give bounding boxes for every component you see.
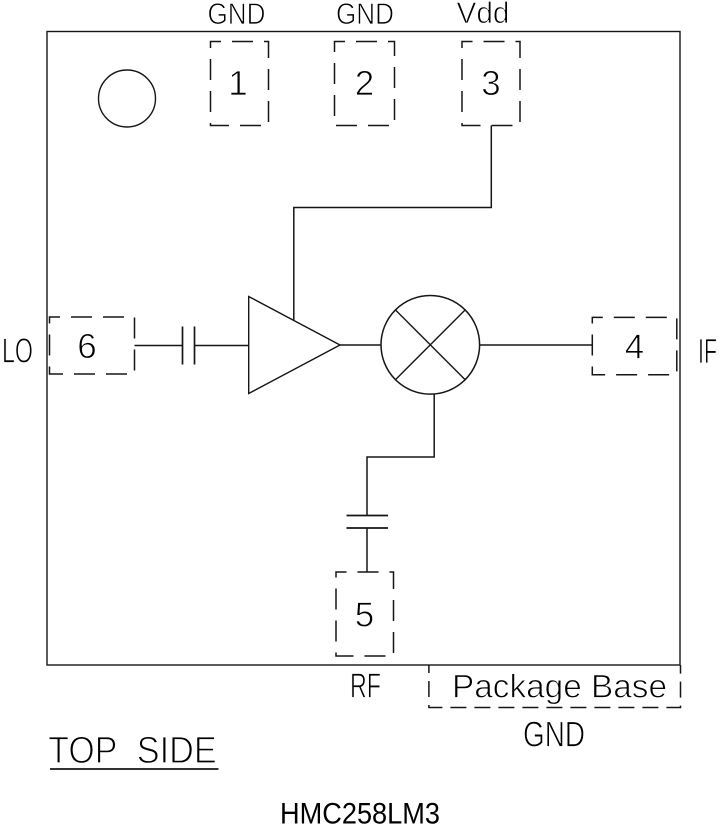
pin 1 pad <box>211 42 269 126</box>
svg-text:HMC258LM3: HMC258LM3 <box>280 798 440 827</box>
svg-text:LO: LO <box>2 332 33 371</box>
wire mixer to capacitor C2 <box>367 394 434 515</box>
svg-text:TOP: TOP <box>48 730 117 772</box>
capacitor C1 (LO coupling) <box>183 327 195 365</box>
svg-text:6: 6 <box>77 327 96 366</box>
svg-text:GND: GND <box>208 0 266 31</box>
mixer U1 <box>381 296 480 395</box>
svg-text:IF: IF <box>698 332 717 371</box>
wire amplifier to mixer <box>340 344 381 346</box>
label TOP SIDE <box>48 730 218 772</box>
svg-text:RF: RF <box>350 667 381 706</box>
wire mixer to pin 4 <box>480 344 593 346</box>
svg-text:3: 3 <box>481 64 500 103</box>
pin 6 pad <box>50 317 135 374</box>
wire pin 6 to capacitor C1 <box>135 345 183 347</box>
pin 2 pad <box>335 42 395 126</box>
pin 5 pad <box>336 572 394 656</box>
amplifier A1 <box>249 297 340 394</box>
svg-text:5: 5 <box>355 596 374 635</box>
wire Vdd pin 3 to amplifier <box>294 126 492 321</box>
svg-text:GND: GND <box>523 714 585 755</box>
capacitor C2 (RF coupling) <box>347 516 389 529</box>
wire capacitor C2 to pin 5 <box>366 528 368 572</box>
wire capacitor C1 to amplifier <box>195 345 250 347</box>
pin 1 indicator circle <box>99 70 156 127</box>
svg-text:2: 2 <box>355 64 374 103</box>
package base pad <box>429 665 681 708</box>
pin 3 pad <box>462 42 520 126</box>
svg-text:Package Base: Package Base <box>452 668 667 705</box>
svg-text:Vdd: Vdd <box>457 0 510 30</box>
svg-text:4: 4 <box>625 328 644 367</box>
package outline <box>47 32 680 666</box>
svg-text:GND: GND <box>336 0 394 31</box>
svg-text:SIDE: SIDE <box>137 730 217 772</box>
svg-text:1: 1 <box>228 64 247 103</box>
pin 4 pad <box>592 317 677 374</box>
